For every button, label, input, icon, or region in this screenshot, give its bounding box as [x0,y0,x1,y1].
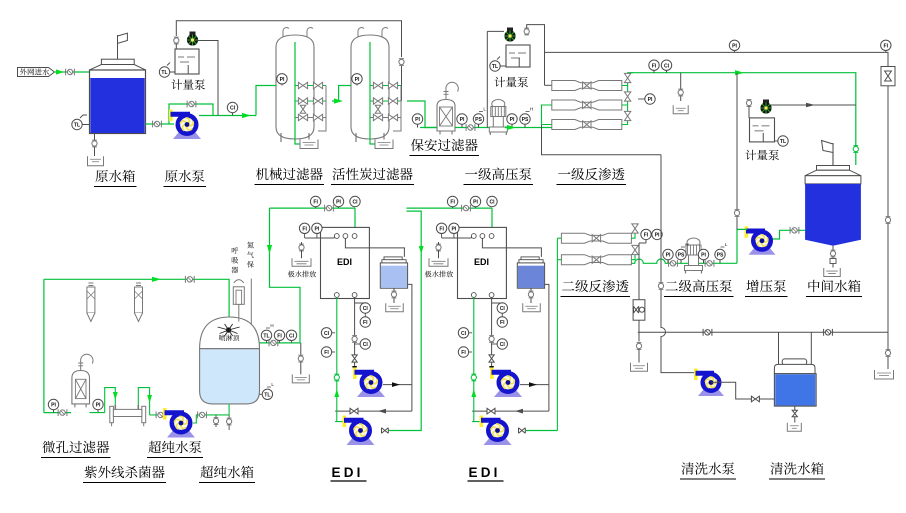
instrument PI micro-r [93,399,103,409]
svg-text:PI: PI [655,233,660,239]
valve 活性炭过滤器 F2 r1b [388,98,397,104]
instrument PI sec-left [412,114,422,124]
flow arrow hp1 [507,125,516,130]
svg-text:EDI: EDI [474,257,489,267]
svg-text:PI: PI [336,200,341,206]
wire tank outlet [146,123,175,125]
drain box RO2 drop [631,363,648,372]
wire tank mid drain [832,246,834,268]
valve pump2B out [519,428,526,434]
label 微孔过滤器 [42,441,55,453]
wire dosing2 head link [487,30,504,32]
svg-text:PS: PS [475,117,482,123]
valve EDI1 green [334,375,339,380]
svg-text:FI: FI [313,200,318,206]
wire RO1 left conc [542,125,662,155]
valve clean tank drain [792,410,797,416]
wire RO1 product [630,73,856,165]
instrument TL tank1 [72,119,82,129]
membrane RO2-2 [561,255,631,265]
wire right branch drain [887,332,889,369]
drain box tank1 [386,303,404,312]
pump EDI1 A [357,391,385,398]
instrument CI EDI2 r3 [497,339,507,349]
metering pump 计量泵 3 tank [750,118,775,142]
wire dosing2 drop [486,31,488,127]
tank 中间水箱 [817,166,850,171]
label 氮气保 [247,242,254,249]
pump 原水泵 [173,133,201,140]
flag on tank [117,35,119,59]
instrument PI EDI2 2 [449,223,459,233]
valve 活性炭过滤器 F2 r0b [388,82,397,88]
instrument FI EDI1 2 [299,223,309,233]
valve bypass [187,101,196,108]
wire RO1 right risers [622,73,633,125]
wire EDI2 to tank [482,238,541,257]
wire metering2 to top [527,25,545,86]
valve 活性炭过滤器 F2 r0a [373,82,382,88]
metering pump 3 head [763,100,769,104]
valve hp2-l [669,260,678,267]
drain box mid tank [824,268,841,277]
valve 活性炭过滤器 F2 r2b [388,114,397,120]
svg-text:PI: PI [701,253,706,259]
valve UP drain [298,356,303,361]
valve UP suction [198,412,207,419]
valve sec out [466,124,475,131]
valve pump1B out [382,428,389,434]
svg-text:TL: TL [492,64,498,70]
label 喷淋顶 [219,335,225,341]
drain box 机械过滤器 F1 [300,140,318,149]
pipe top-right header [545,52,889,332]
svg-text:PI: PI [510,117,515,123]
instrument CI EDI2 l1 [458,328,468,338]
instrument PI 活性炭过滤器 F2 [352,74,362,84]
filter vessel 机械过滤器 F1 [276,35,314,139]
instrument FI EDI2 r2 [497,317,507,327]
svg-text:CI: CI [363,306,369,312]
flow arrow EDI2 feed [419,246,424,254]
wire EDI1 branch to UP tank [260,208,301,343]
pipe top header [176,21,401,57]
instrument TL metering2 [490,61,500,71]
wire filter1 inlet riser [256,86,276,116]
label 紫外线杀菌器 [85,466,97,478]
valve RO1 conc [658,283,663,288]
svg-text:FI: FI [644,233,649,239]
valve drain branch [678,90,683,95]
membrane RO1-3 [552,120,622,130]
label 计量泵 3 [746,150,757,160]
instrument FI EDI1 r2 [360,317,370,327]
instrument PI 机械过滤器 F1 [277,74,287,84]
wire RO1 row1 left link [545,84,552,86]
wire booster relief riser [736,73,738,230]
wire sec to hp pump [455,127,491,129]
svg-text:PS: PS [678,253,685,259]
svg-text:CI: CI [489,200,495,206]
wire clean tank risers [779,332,812,364]
wire EDI2 green riser [472,297,486,421]
pump 二级高压泵 [687,238,700,247]
valve RO1 riser2 [624,92,630,101]
label 计量泵 2 [495,77,506,87]
wire RO2 drop to drain [638,349,640,363]
label 保安过滤器 [411,139,424,151]
meter box RO2 drop [633,300,645,321]
wire RO2 product drop [639,240,646,342]
valve EDI1 feed [325,205,334,212]
svg-text:CI: CI [324,331,330,337]
valve right line [885,217,890,222]
tank EDI2 product [521,257,539,260]
instrument FI product [649,60,659,70]
arrow UV in [113,392,118,400]
green centerline 机械过滤器 F1 [295,42,309,144]
metering pump 计量泵 1 tank [175,49,199,74]
svg-text:PI: PI [314,226,319,232]
label 超纯水箱 [200,466,213,478]
valve 极水排放2 [436,245,441,250]
arrow EDI2 green [471,389,476,397]
instrument FI EDI2 2 [436,223,446,233]
vent hook 微孔 [80,362,82,371]
valve metering2 top [524,29,529,34]
metering pump 计量泵 2 tank [506,45,530,67]
port EDI1 bot2 [352,293,357,298]
drain box right [875,370,894,379]
drain valve UP [228,415,230,418]
pump 增压泵 [749,248,776,255]
svg-text:CI: CI [500,342,506,348]
breather 呼吸器 device [233,287,244,305]
wire pump discharge [199,115,256,117]
wire metering3 dosing [770,104,856,106]
label 清洗水箱 [770,462,782,474]
wire hp1 to RO1 [505,127,552,129]
legs 活性炭过滤器 F2 [356,133,384,142]
arrow recirc2 [515,409,523,414]
port EDI2 top3 [489,234,494,239]
valve EDI1 drop1 [352,336,357,341]
cartridge filter 1 [88,283,93,286]
svg-text:CI: CI [664,63,670,69]
valve mid outlet [790,227,799,234]
valve 机械过滤器 F1 r0b [313,82,322,88]
label 一级反渗透 [558,172,570,174]
valve RO2 riser2 [632,245,638,254]
label 活性炭过滤器 [332,168,345,180]
svg-text:FI: FI [450,200,455,206]
svg-text:TL: TL [780,139,786,145]
instrument CI EDI2 top [487,196,497,206]
instrument PI micro-l [48,399,58,409]
wire EDI1 feed line [270,208,356,227]
port EDI2 bot1 [471,293,476,298]
green centerline 活性炭过滤器 F2 [370,42,384,144]
instrument PI EDI1 2 [312,223,322,233]
module EDI1 [321,227,370,298]
wire filter2 out [407,101,437,128]
nitrogen line 氮气保 [250,279,252,325]
arrow EDI2 drop [489,366,494,374]
drain box UP [292,374,309,383]
svg-text:FI: FI [500,320,505,326]
main line to security filter [420,127,437,129]
manifold row 活性炭过滤器 F2 [370,117,401,119]
label 超纯水泵 [148,441,161,453]
instrument PS hp2-r [715,249,725,259]
tank 超纯水箱 [200,317,260,349]
tank 极水排放1 [292,258,311,266]
instrument TL uptank H [261,330,271,340]
label 计量泵 1 [172,79,183,89]
svg-text:PI: PI [51,403,56,409]
valve mid drain [830,251,835,256]
wire EDI1 product to EDI2 [389,211,421,430]
port EDI2 bot2 [489,293,494,298]
manifold header 活性炭过滤器 F2 [393,86,401,132]
label 二级高压泵 [666,281,678,290]
valve pump UP in [156,412,165,419]
flow arrow [56,69,64,74]
instrument FI EDI1 l2 [321,347,331,357]
svg-text:PI: PI [451,226,456,232]
manifold row 活性炭过滤器 F2 [370,100,401,102]
wire UV out riser [138,388,149,415]
sample valve UP [215,415,217,418]
instrument CI EDI2 r1 [497,303,507,313]
port EDI1 top3 [352,234,357,239]
pipe recirc top [44,279,229,327]
svg-text:PI: PI [415,117,420,123]
label 极水排放2 [425,271,432,278]
instrument PI RO2 [652,229,662,239]
instrument TL uptank L [262,389,272,399]
port EDI1 top1 [334,234,339,239]
instrument TL metering3 [778,136,788,146]
valve EDI2 green [471,375,476,380]
arrow EDI1 green [334,389,339,397]
instrument PS sec [473,114,483,124]
wire RO2 left risers [557,238,561,430]
svg-text:H: H [270,323,273,328]
wire booster discharge [737,229,747,263]
svg-text:PI: PI [473,200,478,206]
flow arrow recirc [152,277,161,282]
pump EDI2 B [484,439,512,446]
valve 活性炭过滤器 F2 r1a [373,98,382,104]
wire pump2A discharge [520,384,549,386]
instrument TL metering1 [159,67,169,77]
manifold row 活性炭过滤器 F2 [370,85,401,87]
valve tank1 drain [391,292,396,297]
valve clean header1 [703,329,712,336]
wire header to main [401,66,403,101]
valve clean suction [751,396,759,402]
instrument FI uptank [274,330,284,340]
instrument PI EDI2 top [470,196,480,206]
membrane RO2-1 [561,233,631,243]
svg-text:TL: TL [74,123,80,129]
wire EDI2 product riser [526,430,557,432]
svg-text:CI: CI [500,306,506,312]
valve hp2-r [705,260,714,267]
valve mid drain2 [830,259,836,264]
valve EDI2 drop2 [489,355,494,362]
valve 活性炭过滤器 F2 vert [375,105,381,113]
filter 微孔过滤器 [72,371,90,404]
tank 清洗水箱 [782,359,807,365]
instrument PI sec-right [457,114,467,124]
wire tank1 drain [393,288,395,303]
drain box clean tank [787,423,801,432]
instrument CI EDI1 l1 [321,328,331,338]
svg-text:PI: PI [732,43,737,49]
valve tank1 drain [92,141,97,146]
svg-text:PI: PI [648,97,653,103]
valve 极水排放1 [299,245,304,250]
instrument FI RO2 [641,229,651,239]
valve 机械过滤器 F1 r1b [313,98,322,104]
label 二级反渗透 [562,281,574,290]
port EDI2 top1 [471,234,476,239]
svg-text:FI: FI [652,63,657,69]
valve 机械过滤器 F1 r2b [313,114,322,120]
valve micro-l [58,409,67,416]
wire RO1 row3 left [542,105,552,125]
pipe recirc left riser [43,279,45,412]
svg-text:CI: CI [363,342,369,348]
arrow EDI1 branch [267,245,272,254]
label 清洗水泵 [681,462,693,474]
port EDI1 top2 [343,234,348,239]
membrane RO1-1 [552,81,622,91]
svg-text:PS: PS [717,253,724,259]
valve RO1 riser3 [624,111,630,120]
valve recirc2 [487,408,495,414]
wire RO2 right risers [631,224,635,260]
wire EDI1 to tank [345,238,404,257]
valve RO2 riser1 [632,224,638,233]
valve RO2 drop drain [636,343,641,348]
valve 机械过滤器 F1 r2a [298,114,307,120]
label 呼吸器 [232,247,239,254]
label 机械过滤器 [256,168,269,180]
UV sterilizer 紫外线杀菌器 [110,406,114,422]
valve RO1 riser1 [624,73,630,82]
wire tank2 drain [530,288,532,303]
wire mid tank outlet [772,230,805,239]
wire tank1 outlet [335,284,412,411]
label 原水泵 [165,170,177,182]
valve inlet [66,69,75,76]
valve 机械过滤器 F1 vert [300,105,306,113]
svg-text:FI: FI [302,226,307,232]
pump 超纯水泵 [167,431,195,438]
wire micro to UV [90,388,116,413]
svg-text:EDI: EDI [469,465,501,480]
main line RO2 [630,259,737,263]
valve EDI2 drop1 [489,336,494,341]
port EDI2 top2 [480,234,485,239]
arrow recirc1 [378,409,386,414]
valve 机械过滤器 F1 r1a [298,98,307,104]
instrument PI RO1 [645,94,655,104]
arrow UV out [147,395,152,403]
svg-text:PS: PS [522,117,529,123]
pump 一级高压泵 [492,100,505,109]
label 原水箱 [95,170,107,182]
instrument CI EDI1 top [350,196,360,206]
manifold row 机械过滤器 F1 [295,85,326,87]
flow arrow discharge [242,113,251,118]
instrument PI hp1 [507,114,517,124]
valve EDI2 feed [462,205,471,212]
tank 原水箱 [90,70,146,134]
svg-text:CI: CI [352,200,358,206]
label 一级高压泵 [465,172,477,174]
wire EDI1 green riser [335,297,349,421]
valve clean header2 [824,329,833,336]
svg-text:FI: FI [277,333,282,339]
wire EDI2 feed line [407,208,493,227]
label 极水排放1 [288,271,295,278]
filter 保安过滤器 [437,100,455,132]
svg-text:PI: PI [460,117,465,123]
instrument PI hp2-l [663,249,673,259]
manifold row 机械过滤器 F1 [295,117,326,119]
flag on tank 中间水箱 [832,143,834,166]
svg-text:H: H [685,242,688,247]
valve metering1 [174,38,179,43]
wire UP suction [193,404,229,423]
valve product drop [853,146,858,151]
instrument PI hp2-r [698,249,708,259]
filter vessel 活性炭过滤器 F2 [351,35,389,139]
wire product drain branch [680,73,682,101]
svg-text:PI: PI [355,77,360,83]
wire to pump UP [150,414,166,416]
wire EDI1 bot-right drop [354,297,356,371]
cartridge filter 2 [136,283,141,286]
instrument FI EDI1 top [310,196,320,206]
valve recirc1 [350,408,358,414]
svg-text:TL: TL [264,392,270,398]
instrument FI topline [881,40,891,50]
arrow EDI1 drop [352,366,357,374]
svg-text:PI: PI [666,253,671,259]
metering pump 2 head [507,28,513,32]
wire inlet green [54,71,90,73]
spray head 喷淋顶 [226,327,231,332]
drain box product [673,105,688,114]
drain box 活性炭过滤器 F2 [375,140,393,149]
svg-text:FI: FI [439,226,444,232]
valve right branch [885,350,890,355]
svg-text:TL: TL [263,333,269,339]
svg-text:EDI: EDI [337,257,352,267]
tank 极水排放2 [429,258,448,266]
instrument PI topline [729,40,739,50]
module EDI2 [458,227,507,298]
pump EDI1 B [347,439,375,446]
vent hook security filter [445,90,447,100]
valve tank2 drain [528,292,533,297]
valve tank outlet [153,121,162,128]
